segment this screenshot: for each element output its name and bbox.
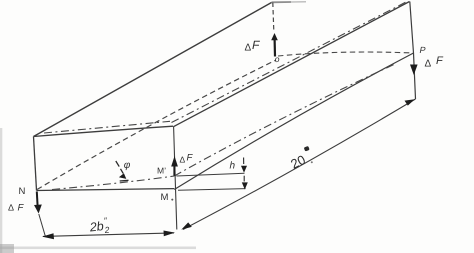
arrowhead right of 20 inch dimension: [405, 99, 415, 105]
force arrow ΔF up at o: [271, 33, 278, 57]
svg-text:h: h: [229, 161, 235, 172]
arrowhead left of 2b2 dimension: [42, 233, 54, 239]
beam far top edge A'-B': [272, 1, 292, 3]
svg-text:Δ: Δ: [424, 59, 431, 70]
dimension line 20 inch: [183, 99, 416, 230]
left vertical edge a-N: [34, 137, 37, 191]
h dimension upper extension line M'-h: [177, 173, 245, 176]
svg-text:2b: 2b: [88, 219, 104, 234]
h dimension lower arrow: [242, 176, 248, 190]
right end edge B'-P vertical: [410, 2, 416, 100]
svg-text:20: 20: [288, 152, 308, 172]
svg-text:o: o: [275, 54, 280, 64]
svg-text:″: ″: [104, 215, 108, 225]
beam edge M-P (bottom-right long edge): [174, 53, 413, 190]
hidden edge A'-o dashed vertical: [273, 3, 274, 32]
beam edge b-B' (top-right long edge): [173, 2, 409, 127]
angle phi arrowhead: [119, 173, 126, 179]
svg-text:F: F: [17, 203, 24, 214]
axis dash-dot line along edge a-b: [44, 121, 170, 133]
scan artifact bottom edge: [0, 247, 196, 250]
scan artifact bottom-left corner: [0, 244, 14, 253]
arrowhead right of 2b2 dimension: [164, 231, 176, 237]
svg-text:F: F: [436, 55, 444, 67]
svg-text:Δ: Δ: [8, 203, 14, 213]
scan artifact left edge: [0, 128, 2, 253]
svg-text:P: P: [419, 45, 425, 55]
h dimension upper arrow: [241, 158, 247, 173]
shaft of arrow at M': [173, 165, 175, 176]
svg-text:Δ: Δ: [244, 43, 251, 54]
beam edge a-A' (top-left long edge): [34, 3, 272, 137]
hidden edge N-o dashed: [37, 60, 276, 190]
extension line below N arrow: [39, 214, 46, 237]
svg-text:M: M: [160, 192, 168, 203]
axis dash-dot line along edge b-B': [172, 2, 407, 123]
svg-text:F: F: [186, 153, 193, 164]
svg-text:2: 2: [103, 224, 110, 235]
section line vertical b-M extended: [174, 127, 177, 230]
force arrow ΔF down at N: [34, 192, 42, 214]
neutral axis dash-dot M'-right end: [174, 64, 395, 176]
dimension line 2b2: [43, 233, 174, 237]
neutral axis dash-dot on near face N-M': [52, 176, 174, 190]
bottom near edge N-M: [37, 189, 175, 191]
svg-text:F: F: [252, 38, 260, 52]
bottom edge extension M to h dimension: [178, 189, 246, 191]
force arrow ΔF up at M': [171, 156, 178, 167]
angle phi base tick: [120, 179, 129, 182]
hidden edge o-P dashed: [278, 52, 413, 56]
svg-text:Δ: Δ: [179, 155, 185, 165]
near face top edge a-b: [34, 126, 174, 136]
angle phi leader dashes: [116, 161, 123, 173]
svg-text:N: N: [18, 186, 25, 197]
svg-text:M’: M’: [157, 166, 166, 176]
svg-text:φ: φ: [124, 160, 131, 171]
arrowhead left of 20 inch dimension: [181, 222, 192, 229]
force arrow ΔF down at P: [410, 65, 418, 76]
